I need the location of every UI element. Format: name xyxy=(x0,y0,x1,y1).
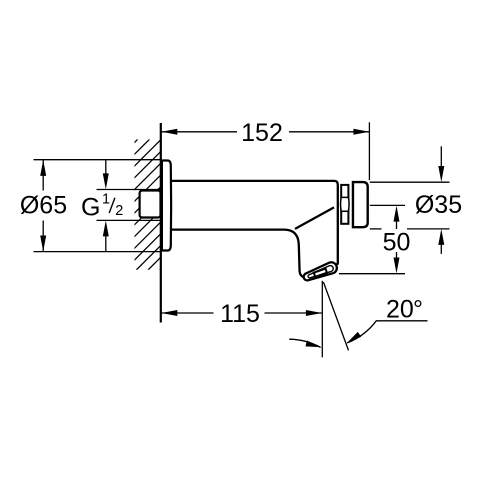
dim Ø65 extension line top xyxy=(34,159,162,161)
dim Ø35 xyxy=(370,146,462,254)
svg-text:1: 1 xyxy=(102,191,110,207)
svg-text:115: 115 xyxy=(220,300,260,328)
dim Ø65 extension line bottom xyxy=(34,251,162,253)
dim G1/2 extension line top xyxy=(97,189,162,191)
svg-text:Ø35: Ø35 xyxy=(415,191,462,219)
G1/2 label xyxy=(81,191,123,221)
outlet axis reference line xyxy=(321,281,323,358)
svg-text:20: 20 xyxy=(386,296,414,324)
svg-text:152: 152 xyxy=(241,119,283,147)
50 extension line bottom xyxy=(339,273,405,275)
faucet body xyxy=(168,181,338,277)
dim 115 xyxy=(161,300,322,328)
svg-text:G: G xyxy=(81,193,100,221)
dim 152 xyxy=(161,119,369,147)
20 deg slant line xyxy=(323,282,348,350)
valve nut xyxy=(341,185,350,224)
50 extension line top (centerline) xyxy=(370,204,405,206)
svg-text:2: 2 xyxy=(115,203,123,219)
dim Ø65 xyxy=(20,160,67,252)
svg-text:Ø65: Ø65 xyxy=(20,192,67,220)
push knob xyxy=(353,182,368,227)
spout bend edge xyxy=(295,207,334,229)
wall hatching xyxy=(7,139,291,270)
wall line xyxy=(160,123,162,323)
20 deg angle arc arrow left xyxy=(289,339,322,350)
wall flange escutcheon xyxy=(162,161,171,251)
extension line knob right xyxy=(368,122,370,180)
20 deg leader and label xyxy=(345,296,428,346)
outlet inner rim xyxy=(307,265,334,279)
Ø35 extension line top xyxy=(370,181,450,183)
svg-text:°: ° xyxy=(413,296,423,324)
dim 50 xyxy=(339,205,410,273)
dim G1/2 extension line bottom xyxy=(97,219,162,221)
outlet face capsule xyxy=(302,261,339,283)
G1/2 square nipple xyxy=(140,191,161,218)
svg-text:50: 50 xyxy=(383,229,411,257)
dim G1/2 arrows xyxy=(103,160,109,251)
Ø35 extension line bottom xyxy=(370,228,382,230)
aerator slot xyxy=(314,269,327,277)
